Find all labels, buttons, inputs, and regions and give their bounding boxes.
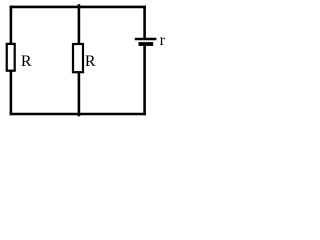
svg-text:R: R	[21, 53, 32, 70]
svg-text:R: R	[85, 53, 96, 70]
resistor R1 (left box)	[7, 44, 15, 71]
wire left branch	[10, 6, 13, 116]
wire right branch lower (from cell)	[143, 44, 146, 115]
wire top bus	[10, 6, 146, 9]
wire middle branch lower, junction tick at bottom bus	[78, 71, 81, 116]
resistor R2 (middle box)	[73, 44, 83, 72]
cell positive plate (long thin)	[135, 38, 157, 40]
svg-text:r: r	[160, 32, 166, 49]
wire middle branch upper, junction tick at top bus	[78, 4, 81, 45]
wire bottom bus	[10, 113, 146, 116]
cell negative plate (short thick)	[139, 42, 154, 46]
wire right branch upper (to cell)	[143, 6, 146, 39]
